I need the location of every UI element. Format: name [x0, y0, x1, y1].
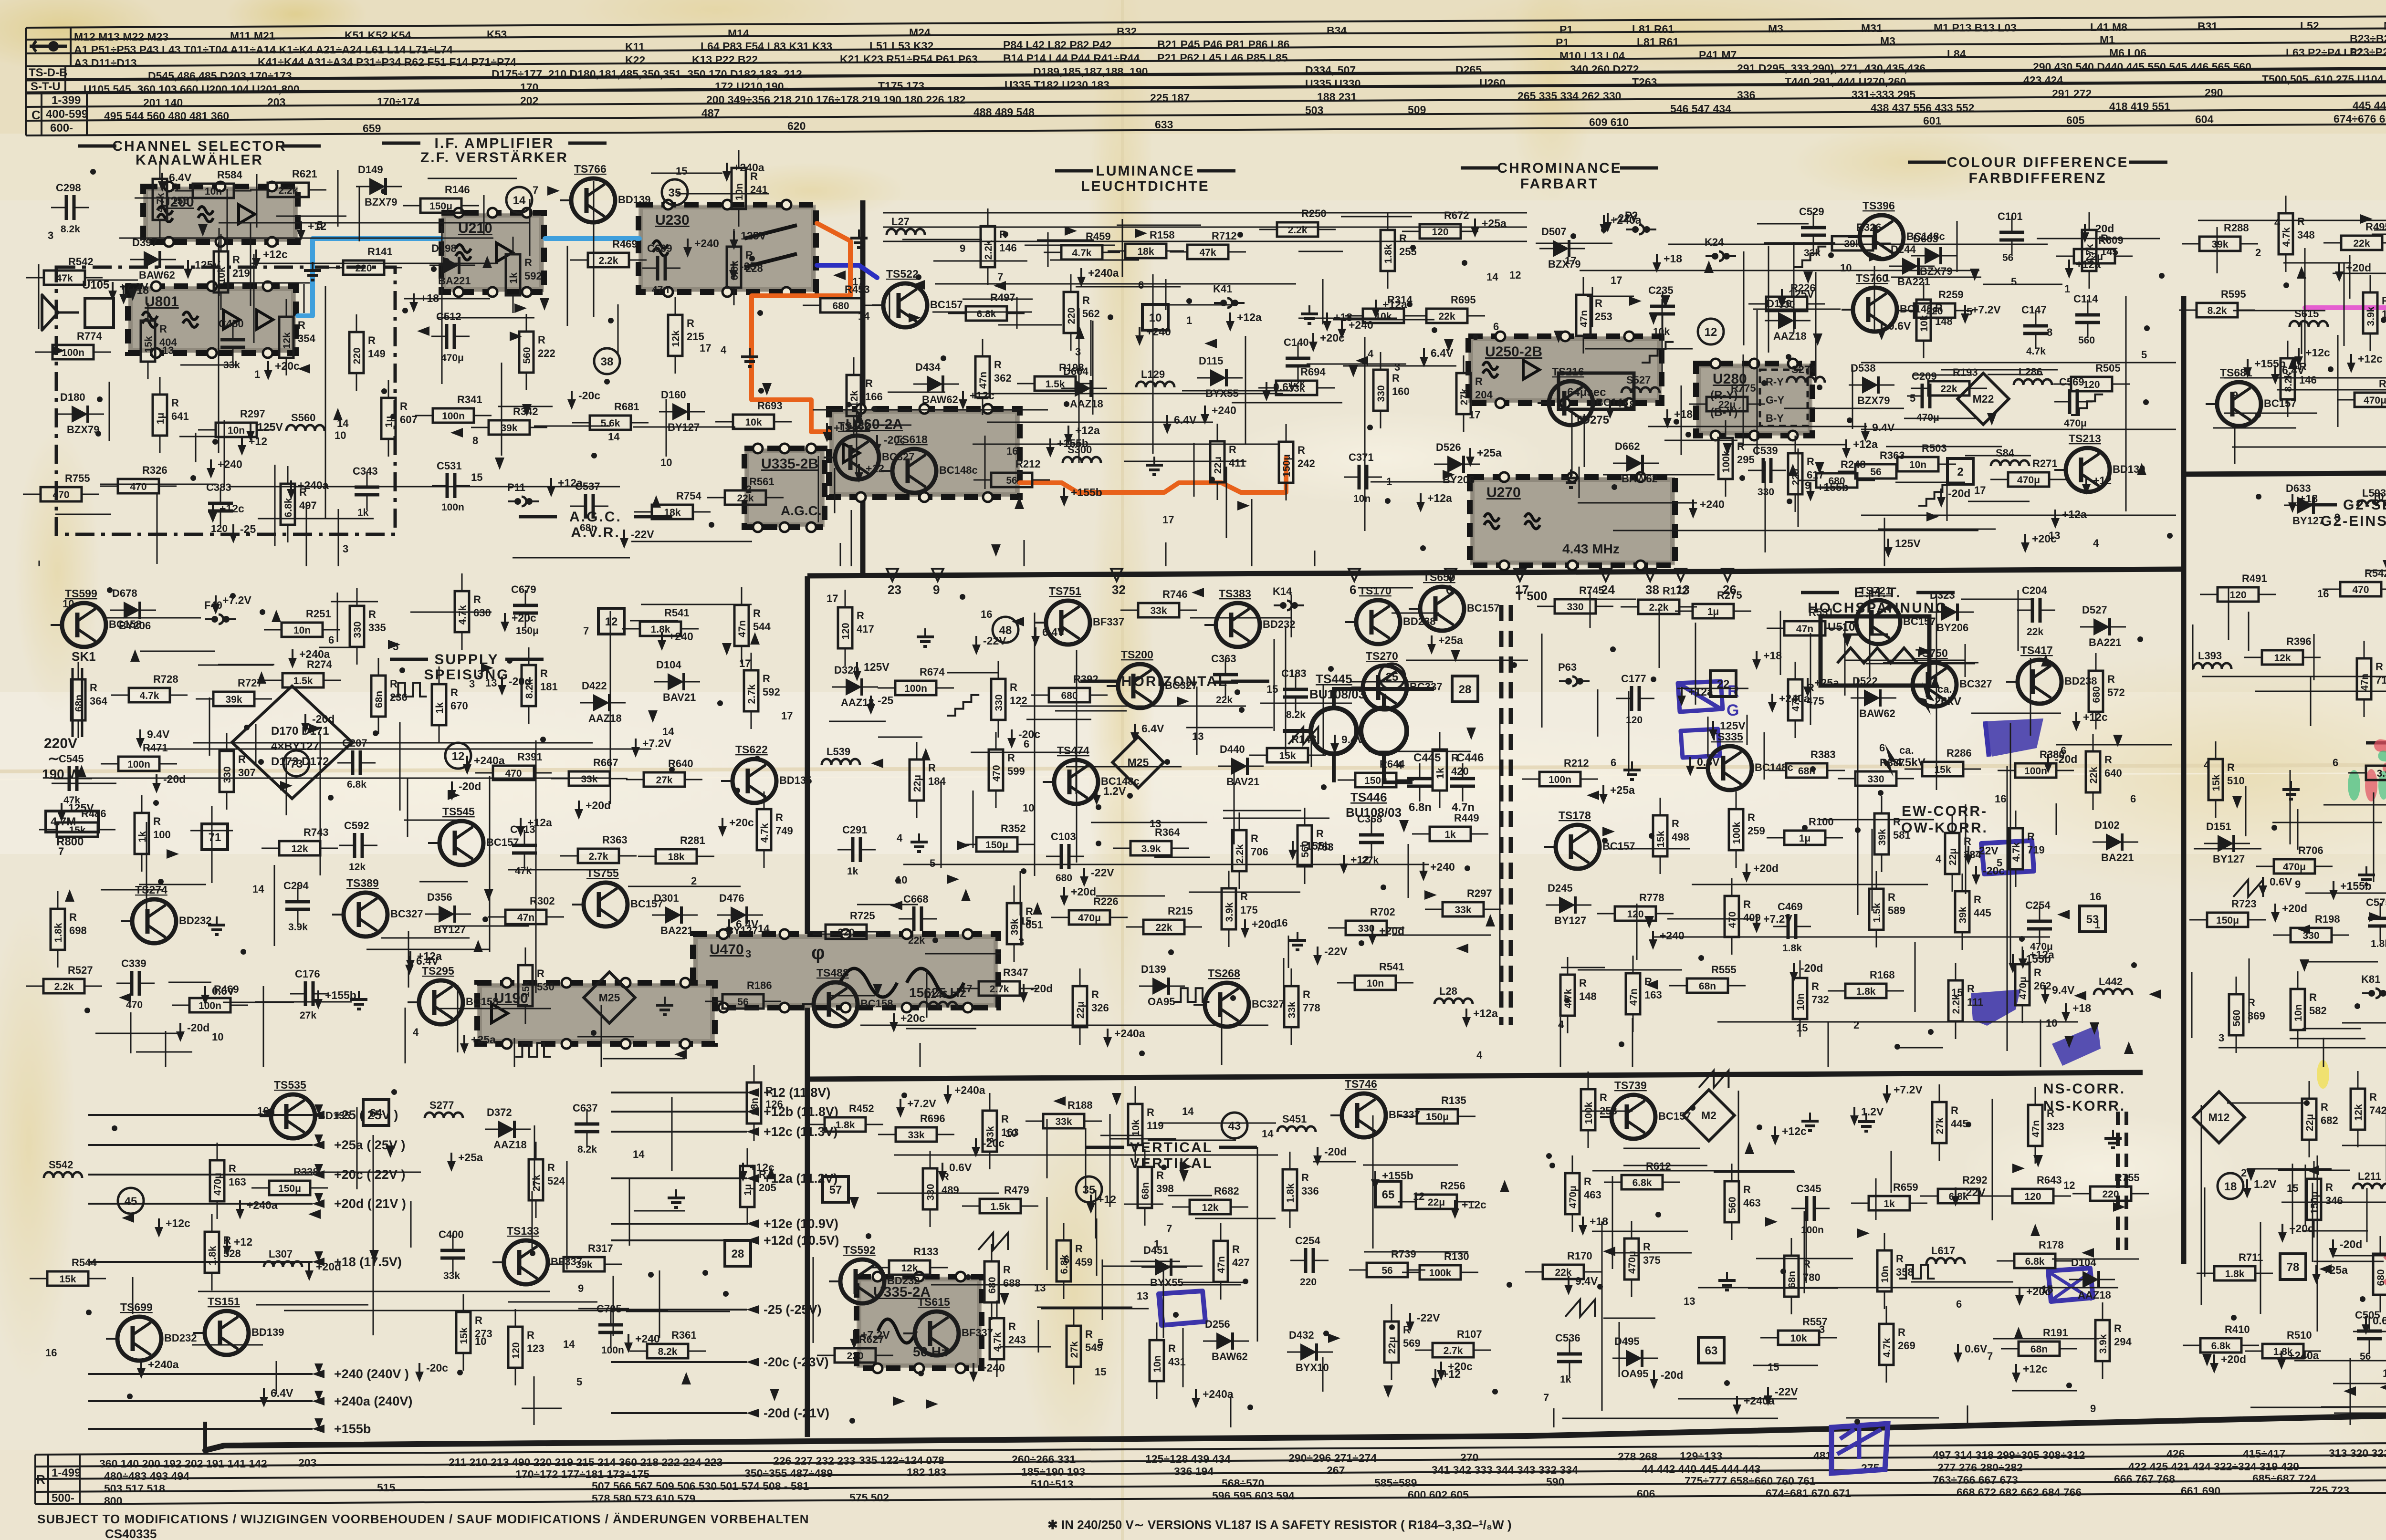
svg-text:10k: 10k — [1653, 326, 1670, 337]
svg-text:10n: 10n — [1367, 978, 1384, 989]
numbered box node (texture) — [2280, 1254, 2306, 1280]
resistor vertical (texture) — [2009, 811, 2023, 887]
connector node (texture) — [205, 614, 236, 624]
svg-text:100: 100 — [153, 829, 171, 841]
svg-text:+240a: +240a — [1203, 1388, 1234, 1400]
resistor (texture) — [1126, 920, 1202, 934]
capacitor (texture) — [899, 906, 937, 931]
capacitor (texture) — [339, 833, 377, 858]
svg-text:14: 14 — [252, 883, 264, 895]
resistor (texture) — [1051, 910, 1128, 925]
svg-text:445: 445 — [1974, 907, 1991, 919]
svg-text:+12c: +12c — [1782, 1125, 1807, 1137]
svg-text:6.8k: 6.8k — [283, 498, 294, 517]
svg-text:TS721: TS721 — [1859, 584, 1892, 597]
svg-text:R775: R775 — [1731, 382, 1756, 394]
svg-text:+18: +18 — [1664, 252, 1682, 265]
svg-text:181: 181 — [540, 681, 558, 693]
svg-text:1k: 1k — [508, 272, 519, 284]
diode (texture) — [654, 673, 700, 690]
svg-text:1k: 1k — [434, 702, 445, 714]
resistor vertical (texture) — [923, 1151, 937, 1227]
voltage label (texture) — [201, 986, 209, 1005]
svg-text:L81 R61: L81 R61 — [1632, 23, 1674, 35]
svg-text:+240: +240 — [1212, 404, 1236, 416]
top index table frame — [26, 13, 2386, 28]
svg-text:259: 259 — [1748, 825, 1765, 837]
ground (texture) — [2282, 781, 2300, 799]
ground (texture) — [1801, 1113, 1819, 1131]
svg-text:100n: 100n — [1801, 1225, 1824, 1236]
svg-text:148: 148 — [1579, 990, 1597, 1002]
resistor (texture) — [1522, 772, 1598, 786]
voltage label (texture) — [305, 1262, 314, 1281]
svg-text:R674: R674 — [920, 666, 945, 678]
voltage label (texture) — [184, 260, 192, 279]
svg-text:B23÷B25 L21÷L24: B23÷B25 L21÷L24 — [2350, 32, 2386, 45]
svg-text:C469: C469 — [1778, 901, 1803, 913]
svg-text:33k: 33k — [1150, 605, 1167, 616]
svg-text:33k: 33k — [1455, 905, 1471, 916]
svg-text:6: 6 — [328, 634, 334, 646]
resistor (texture) — [1113, 841, 1189, 855]
svg-text:+12c: +12c — [1462, 1198, 1486, 1211]
svg-text:1.8k: 1.8k — [1383, 244, 1394, 263]
voltage label (texture) — [1951, 1187, 1960, 1207]
svg-text:C531: C531 — [437, 460, 462, 472]
svg-text:TS213: TS213 — [2069, 432, 2101, 445]
resistor vertical (texture) — [71, 662, 85, 738]
svg-text:+20c: +20c — [512, 612, 536, 624]
diode (texture) — [1546, 896, 1591, 914]
svg-text:G: G — [1727, 701, 1739, 719]
voltage label (texture) — [1130, 724, 1139, 743]
svg-text:+12a: +12a — [834, 422, 858, 434]
svg-text:562: 562 — [1082, 308, 1100, 320]
svg-text:35: 35 — [669, 187, 681, 199]
svg-text:601: 601 — [1923, 114, 1942, 127]
resistor (texture) — [1120, 603, 1197, 617]
voltage label (texture) — [314, 990, 323, 1009]
svg-text:BC158: BC158 — [466, 996, 498, 1008]
svg-text:C176: C176 — [295, 968, 320, 980]
svg-text:17: 17 — [739, 657, 751, 669]
svg-text:4.7k: 4.7k — [759, 823, 770, 843]
svg-text:1: 1 — [1186, 314, 1192, 326]
IC block U250-2B — [1468, 332, 1662, 408]
svg-text:R: R — [1584, 1176, 1591, 1187]
resistor (texture) — [878, 681, 954, 695]
svg-text:47k: 47k — [56, 273, 73, 284]
resistor (texture) — [634, 505, 711, 519]
svg-text:211 210 213 490 220 219 215 21: 211 210 213 490 220 219 215 214 360 218 … — [449, 1456, 722, 1468]
svg-text:56: 56 — [1870, 467, 1881, 478]
svg-text:659: 659 — [363, 122, 381, 135]
voltage label (texture) — [2015, 1287, 2024, 1306]
resistor (texture) — [808, 925, 884, 939]
EHT flash arrows — [1919, 682, 1935, 715]
voltage label (texture) — [2294, 348, 2303, 367]
svg-text:+18: +18 — [420, 292, 439, 304]
svg-text:S-T-U: S-T-U — [31, 80, 61, 93]
svg-text:K24: K24 — [1705, 236, 1724, 248]
svg-text:ca.: ca. — [1937, 683, 1952, 695]
inductor (texture) — [2290, 321, 2328, 327]
voltage label (texture) — [260, 1388, 268, 1407]
svg-text:TS151: TS151 — [208, 1295, 240, 1308]
resistor vertical (texture) — [1626, 956, 1640, 1032]
pen scribble box 2 — [1681, 729, 1720, 758]
svg-text:R: R — [2248, 997, 2255, 1009]
svg-text:R: R — [232, 254, 240, 266]
voltage label (texture) — [1092, 786, 1101, 805]
svg-text:+7.2V: +7.2V — [907, 1097, 936, 1110]
svg-text:685÷687 724: 685÷687 724 — [2252, 1472, 2316, 1485]
svg-text:R338: R338 — [293, 1166, 319, 1178]
svg-text:TS417: TS417 — [2020, 644, 2053, 656]
svg-text:6.8k: 6.8k — [2211, 1341, 2231, 1352]
svg-text:5: 5 — [930, 857, 935, 869]
svg-text:R191: R191 — [2043, 1327, 2068, 1339]
svg-text:BY206: BY206 — [119, 620, 151, 632]
svg-text:3: 3 — [1018, 936, 1024, 948]
resistor (texture) — [973, 473, 1050, 487]
svg-text:+20d: +20d — [2221, 1353, 2246, 1365]
resistor (texture) — [1748, 297, 1825, 311]
svg-text:10n: 10n — [2293, 1004, 2304, 1021]
svg-text:1k: 1k — [357, 507, 369, 518]
voltage label (texture) — [631, 739, 640, 758]
transistor (texture) — [1848, 215, 1904, 259]
svg-text:56: 56 — [1006, 475, 1017, 486]
svg-text:507 566 567 509 506 530 501 57: 507 566 567 509 506 530 501 574 508 - 58… — [592, 1480, 809, 1492]
svg-text:R363: R363 — [602, 834, 628, 846]
IC block U335-2B — [744, 444, 825, 532]
voltage label (texture) — [1579, 1217, 1587, 1236]
IC block U210 — [441, 208, 544, 297]
svg-text:0.6V: 0.6V — [1965, 1342, 1988, 1355]
resistor vertical (texture) — [51, 891, 65, 968]
svg-text:+18: +18 — [2072, 1002, 2091, 1014]
diode (texture) — [652, 906, 698, 924]
svg-text:BD139: BD139 — [618, 194, 650, 206]
svg-text:291 D295, 333,290), 271, 430,4: 291 D295, 333,290), 271, 430,435,436. — [1737, 62, 1929, 74]
svg-text:+7.2V: +7.2V — [222, 594, 251, 606]
power rail labels right group +12 — [611, 1092, 747, 1093]
svg-text:BY127: BY127 — [2213, 853, 2245, 865]
svg-text:TS739: TS739 — [1614, 1079, 1647, 1092]
ground (texture) — [910, 833, 928, 852]
svg-text:220: 220 — [1066, 307, 1077, 324]
svg-text:C363: C363 — [1211, 653, 1236, 665]
resistor vertical (texture) — [210, 1143, 224, 1219]
svg-text:Z.F. VERSTÄRKER: Z.F. VERSTÄRKER — [420, 150, 568, 166]
svg-text:125V: 125V — [1789, 288, 1814, 300]
svg-text:D160: D160 — [661, 389, 686, 401]
svg-text:125V: 125V — [1720, 719, 1746, 732]
svg-text:544: 544 — [753, 621, 771, 633]
svg-text:U470: U470 — [710, 942, 744, 957]
voltage label (texture) — [1961, 305, 1969, 324]
pen scribble NS-corr box — [2048, 1268, 2093, 1301]
svg-text:220: 220 — [1300, 1277, 1317, 1288]
resistor (texture) — [1851, 1196, 1927, 1210]
svg-text:568÷570: 568÷570 — [1222, 1477, 1264, 1489]
resistor (texture) — [1415, 1343, 1491, 1357]
svg-text:R: R — [473, 593, 481, 605]
svg-text:K51 K52 K54: K51 K52 K54 — [345, 29, 411, 42]
svg-text:R: R — [450, 687, 458, 698]
resistor (texture) — [878, 1127, 954, 1142]
svg-text:39k: 39k — [501, 423, 517, 434]
inductor (texture) — [1622, 387, 1660, 393]
svg-text:6.4V: 6.4V — [1174, 414, 1197, 426]
svg-text:0.6V: 0.6V — [1888, 320, 1911, 332]
svg-text:R: R — [1743, 898, 1751, 910]
svg-text:33k: 33k — [1804, 248, 1821, 259]
voltage label (texture) — [1972, 866, 1980, 885]
svg-text:16: 16 — [1995, 793, 2006, 805]
svg-text:R694: R694 — [1300, 366, 1326, 378]
svg-text:-22V: -22V — [1614, 212, 1638, 224]
svg-text:5: 5 — [2141, 349, 2147, 361]
thick border horizontal y2256 vertical-section top — [807, 1072, 2143, 1079]
svg-text:10: 10 — [2046, 1017, 2057, 1029]
svg-text:FARBART: FARBART — [1520, 176, 1599, 192]
resistor (texture) — [962, 1199, 1038, 1213]
svg-text:C400: C400 — [439, 1228, 464, 1240]
svg-text:C512: C512 — [436, 311, 461, 323]
svg-text:R326: R326 — [142, 464, 167, 476]
svg-text:R659: R659 — [1893, 1181, 1918, 1193]
voltage label (texture) — [567, 391, 576, 410]
svg-text:R: R — [524, 257, 532, 269]
svg-text:100n: 100n — [1549, 774, 1571, 785]
svg-text:16: 16 — [1006, 445, 1018, 457]
voltage label (texture) — [943, 1085, 952, 1104]
svg-text:M12 M13 M22 M23: M12 M13 M22 M23 — [74, 31, 168, 43]
transistor (texture) — [829, 1259, 884, 1303]
svg-text:D434: D434 — [915, 361, 941, 373]
voltage label (texture) — [2243, 359, 2252, 378]
svg-text:BC327: BC327 — [390, 908, 423, 920]
svg-text:120: 120 — [1626, 715, 1643, 726]
waveform sketch — [1918, 485, 1950, 506]
resistor vertical (texture) — [1384, 1304, 1399, 1380]
svg-text:668 672 682 662 684 766: 668 672 682 662 684 766 — [1957, 1486, 2082, 1498]
capacitor (texture) — [837, 837, 876, 862]
svg-text:ca.: ca. — [1899, 744, 1914, 756]
svg-text:S451: S451 — [1282, 1113, 1307, 1125]
voltage label (texture) — [516, 818, 525, 837]
svg-text:+240a (240V): +240a (240V) — [334, 1394, 412, 1408]
voltage label (texture) — [2041, 985, 2050, 1004]
voltage label (texture) — [288, 649, 297, 668]
resistor vertical (texture) — [1128, 1086, 1142, 1163]
svg-text:16: 16 — [45, 1347, 57, 1359]
svg-text:120: 120 — [840, 623, 851, 639]
diode (texture) — [110, 602, 156, 619]
resistor (texture) — [803, 298, 879, 312]
svg-text:C204: C204 — [2022, 584, 2047, 596]
svg-text:+12a: +12a — [2062, 508, 2087, 520]
svg-text:C445: C445 — [1413, 751, 1441, 764]
svg-text:R: R — [1001, 1113, 1009, 1125]
voltage label (texture) — [1241, 919, 1249, 938]
svg-text:-20d: -20d — [163, 773, 186, 785]
svg-text:D397: D397 — [132, 237, 157, 249]
resistor (texture) — [2001, 1342, 2077, 1356]
svg-text:470: 470 — [1727, 911, 1738, 928]
svg-text:100n: 100n — [2024, 766, 2047, 777]
svg-text:330: 330 — [994, 694, 1005, 711]
inductor (texture) — [2357, 500, 2386, 506]
svg-text:470μ: 470μ — [1568, 1186, 1579, 1208]
svg-text:C114: C114 — [2073, 293, 2098, 305]
pen scribble box vertical-section — [1159, 1291, 1205, 1325]
svg-text:22μ: 22μ — [1213, 457, 1224, 474]
svg-text:360 140 200 192 202 191 141 14: 360 140 200 192 202 191 141 142 — [99, 1457, 267, 1470]
svg-text:4.43 MHz: 4.43 MHz — [1562, 541, 1620, 556]
svg-text:3: 3 — [745, 948, 751, 960]
resistor vertical (texture) — [135, 795, 149, 872]
svg-text:R: R — [2034, 967, 2041, 978]
capacitor (texture) — [1907, 384, 1945, 408]
svg-text:-20d (-21V): -20d (-21V) — [764, 1406, 829, 1420]
svg-text:A3 D11÷D13: A3 D11÷D13 — [74, 57, 137, 69]
svg-text:+12a: +12a — [2030, 948, 2054, 961]
svg-text:17: 17 — [961, 983, 972, 995]
voltage label (texture) — [718, 818, 727, 837]
voltage label (texture) — [406, 951, 415, 970]
capacitor (texture) — [285, 886, 310, 925]
svg-text:+12a: +12a — [1382, 298, 1407, 311]
svg-text:33k: 33k — [908, 1130, 924, 1141]
svg-text:TS699: TS699 — [120, 1301, 153, 1313]
wire cluster C2-chroma-extra — [1648, 426, 1867, 427]
svg-text:R317: R317 — [588, 1242, 613, 1254]
ground (texture) — [850, 229, 868, 248]
svg-text:71: 71 — [209, 831, 221, 844]
svg-text:R778: R778 — [1639, 892, 1664, 904]
voltage label (texture) — [301, 714, 310, 733]
svg-text:630: 630 — [473, 607, 491, 619]
svg-text:-20d: -20d — [509, 675, 531, 687]
ground (texture) — [741, 348, 758, 366]
capacitor (texture) — [2357, 1316, 2382, 1354]
svg-text:TS270: TS270 — [1366, 650, 1398, 662]
svg-text:3.9k: 3.9k — [2365, 306, 2376, 326]
transistor (texture) — [802, 982, 858, 1026]
svg-text:K41÷K44 A31÷A34 P31÷P34 R62 F5: K41÷K44 A31÷A34 P31÷P34 R62 F51 F14 P71÷… — [258, 56, 516, 68]
svg-text:R271: R271 — [2032, 458, 2058, 469]
svg-text:TS522: TS522 — [886, 268, 919, 280]
svg-text:47n: 47n — [1216, 1256, 1227, 1273]
svg-text:R: R — [1008, 1321, 1016, 1332]
svg-text:D151: D151 — [2206, 821, 2231, 832]
svg-text:R: R — [1392, 372, 1400, 384]
voltage label (texture) — [1371, 1171, 1380, 1190]
svg-text:TS178: TS178 — [1559, 809, 1591, 822]
svg-text:340 260 D272: 340 260 D272 — [1570, 63, 1639, 75]
svg-text:17: 17 — [700, 342, 711, 354]
svg-text:15k: 15k — [1655, 831, 1666, 847]
svg-text:175: 175 — [1240, 904, 1258, 916]
resistor vertical (texture) — [983, 1093, 997, 1169]
svg-text:323: 323 — [2047, 1121, 2064, 1133]
svg-text:582: 582 — [2309, 1005, 2327, 1017]
voltage label (texture) — [2288, 494, 2297, 513]
capacitor (texture) — [1650, 291, 1675, 329]
voltage label (texture) — [2347, 354, 2355, 373]
svg-text:294: 294 — [2114, 1336, 2132, 1348]
svg-text:68n: 68n — [580, 522, 597, 533]
svg-text:-22V: -22V — [983, 635, 1006, 647]
svg-text:+20d: +20d — [316, 1260, 341, 1273]
svg-text:33k: 33k — [443, 1270, 460, 1281]
svg-text:AAZ18: AAZ18 — [1773, 330, 1807, 342]
svg-text:415÷417: 415÷417 — [2243, 1447, 2285, 1460]
svg-text:341 342 333 344 343 332 334: 341 342 333 344 343 332 334 — [1432, 1464, 1578, 1476]
svg-text:15k: 15k — [521, 980, 532, 997]
svg-text:330: 330 — [1867, 774, 1884, 785]
svg-text:TS545: TS545 — [442, 805, 475, 818]
capacitor (texture) — [2368, 903, 2386, 941]
svg-text:470μ: 470μ — [441, 353, 464, 364]
resistor (texture) — [26, 271, 103, 285]
svg-text:BC327: BC327 — [1165, 679, 1197, 691]
svg-text:7: 7 — [583, 625, 589, 637]
svg-text:TS389: TS389 — [346, 877, 379, 889]
inductor (texture) — [919, 1002, 957, 1008]
diode (texture) — [2069, 1271, 2115, 1288]
resistor vertical (texture) — [1373, 352, 1388, 428]
svg-text:33k: 33k — [1055, 1116, 1072, 1127]
ground (texture) — [304, 262, 321, 280]
svg-text:R396: R396 — [2286, 635, 2312, 647]
svg-text:R469: R469 — [612, 238, 638, 250]
voltage label (texture) — [1883, 1085, 1891, 1104]
svg-text:R: R — [1168, 1342, 1176, 1354]
voltage label (texture) — [1420, 348, 1428, 367]
svg-text:BA221: BA221 — [438, 275, 471, 287]
bottom earth bus — [205, 1404, 2386, 1450]
resistor (texture) — [1880, 457, 1956, 471]
resistor (texture) — [175, 184, 251, 198]
svg-text:L64 P83 F54 L83 K31 K33: L64 P83 F54 L83 K31 K33 — [701, 40, 832, 52]
svg-text:100n: 100n — [601, 1345, 624, 1356]
svg-text:+240a: +240a — [954, 1084, 985, 1096]
svg-text:C609: C609 — [647, 242, 672, 254]
T500 transformer dashed core — [1499, 605, 1504, 1025]
diamond node (texture) — [2193, 1092, 2244, 1143]
svg-text:14: 14 — [858, 310, 870, 322]
voltage label (texture) — [867, 696, 875, 715]
svg-text:100k: 100k — [1429, 1268, 1452, 1279]
svg-text:S615: S615 — [2294, 308, 2319, 320]
svg-text:145: 145 — [2101, 246, 2118, 258]
inductor (texture) — [1991, 460, 2029, 466]
svg-text:D422: D422 — [582, 680, 607, 692]
svg-text:6.4V: 6.4V — [1141, 722, 1164, 735]
voltage label (texture) — [1768, 694, 1777, 713]
svg-text:R100: R100 — [1809, 816, 1834, 828]
svg-text:R495: R495 — [2365, 221, 2386, 233]
red-green marker pairs convergence — [2373, 739, 2386, 755]
svg-text:241: 241 — [750, 184, 768, 196]
svg-text:6: 6 — [1879, 742, 1885, 754]
svg-text:BY206: BY206 — [1936, 622, 1968, 634]
